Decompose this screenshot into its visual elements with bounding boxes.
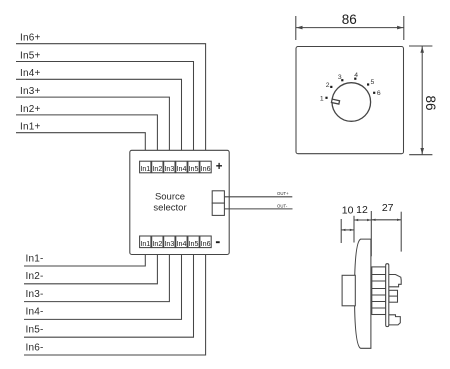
wire In2+ bbox=[16, 104, 157, 161]
svg-text:In1-: In1- bbox=[26, 253, 44, 264]
svg-text:10: 10 bbox=[342, 205, 354, 217]
terminal in1 bottom bbox=[140, 236, 151, 248]
svg-text:In6-: In6- bbox=[26, 342, 44, 353]
output terminal OUT+ block bbox=[212, 191, 224, 203]
wire In4- bbox=[24, 248, 182, 320]
wire In3+ bbox=[16, 86, 169, 161]
svg-text:In3: In3 bbox=[164, 239, 174, 248]
output terminal OUT- block bbox=[212, 203, 224, 215]
svg-text:In5+: In5+ bbox=[20, 50, 41, 61]
terminal in1 top bbox=[140, 161, 151, 173]
side view middle terminal blocks bbox=[389, 290, 398, 302]
svg-text:2: 2 bbox=[326, 82, 330, 89]
wire In1+ bbox=[16, 122, 145, 162]
terminal in4 top bbox=[176, 161, 187, 173]
terminal in3 bottom bbox=[164, 236, 175, 248]
svg-text:selector: selector bbox=[153, 202, 186, 213]
terminal in5 bottom bbox=[188, 236, 199, 248]
terminal in4 bottom bbox=[176, 236, 187, 248]
svg-text:In2-: In2- bbox=[26, 271, 44, 282]
dimension 10 bbox=[341, 205, 354, 243]
wire In5+ bbox=[16, 50, 194, 161]
svg-text:In6: In6 bbox=[201, 239, 211, 248]
svg-text:OUT-: OUT- bbox=[277, 204, 288, 209]
svg-text:+: + bbox=[216, 161, 223, 173]
wire OUT+ bbox=[224, 191, 292, 197]
terminal in6 bottom bbox=[200, 236, 211, 248]
source selector box U1 bbox=[130, 150, 229, 254]
terminal in3 top bbox=[164, 161, 175, 173]
wire In6+ bbox=[16, 33, 206, 162]
svg-text:Source: Source bbox=[155, 191, 185, 202]
svg-text:In3+: In3+ bbox=[20, 86, 41, 97]
wire In6- bbox=[24, 248, 206, 355]
side view bottom connector tab bbox=[388, 315, 400, 325]
dimension 27 bbox=[371, 202, 401, 251]
wire In3- bbox=[24, 248, 169, 302]
position dot 4 bbox=[354, 78, 356, 80]
position dot 5 bbox=[367, 83, 369, 85]
wire In5- bbox=[24, 248, 194, 338]
terminal in2 top bbox=[152, 161, 163, 173]
height dimension 86 bbox=[409, 46, 438, 155]
svg-text:In4+: In4+ bbox=[20, 68, 41, 79]
svg-text:6: 6 bbox=[377, 90, 381, 97]
svg-text:In3: In3 bbox=[164, 164, 174, 173]
svg-text:86: 86 bbox=[423, 95, 438, 110]
position dot 2 bbox=[330, 86, 332, 88]
svg-text:In4: In4 bbox=[177, 164, 187, 173]
position dot 3 bbox=[341, 79, 343, 81]
svg-text:4: 4 bbox=[354, 72, 358, 79]
svg-text:OUT+: OUT+ bbox=[277, 191, 289, 196]
svg-text:In3-: In3- bbox=[26, 289, 44, 300]
svg-text:In5: In5 bbox=[189, 164, 199, 173]
svg-text:12: 12 bbox=[356, 204, 368, 216]
side view switch body bbox=[372, 267, 386, 315]
svg-text:In4: In4 bbox=[177, 239, 187, 248]
svg-text:In2: In2 bbox=[152, 164, 162, 173]
terminal in6 top bbox=[200, 161, 211, 173]
svg-text:In1+: In1+ bbox=[20, 122, 41, 133]
side view top connector tab bbox=[388, 275, 401, 287]
terminal in2 bottom bbox=[152, 236, 163, 248]
width dimension 86 bbox=[296, 12, 404, 40]
dimension 12 bbox=[354, 204, 371, 256]
side view faceplate bbox=[355, 239, 371, 348]
position dot 1 bbox=[325, 97, 327, 99]
svg-text:In2+: In2+ bbox=[20, 104, 41, 115]
svg-text:In5-: In5- bbox=[26, 325, 44, 336]
wire In2- bbox=[24, 248, 157, 284]
svg-text:5: 5 bbox=[371, 79, 375, 86]
wire OUT- bbox=[224, 204, 292, 209]
wire In4+ bbox=[16, 68, 182, 161]
minus polarity sign bbox=[216, 241, 220, 243]
svg-text:27: 27 bbox=[382, 202, 394, 214]
label Source selector bbox=[153, 191, 186, 213]
svg-text:3: 3 bbox=[338, 74, 342, 81]
svg-text:In6+: In6+ bbox=[20, 33, 41, 44]
svg-text:In1: In1 bbox=[140, 239, 150, 248]
terminal in5 top bbox=[188, 161, 199, 173]
svg-text:In5: In5 bbox=[189, 239, 199, 248]
svg-text:In6: In6 bbox=[201, 164, 211, 173]
svg-text:In4-: In4- bbox=[26, 307, 44, 318]
side view mounting bar bbox=[386, 264, 389, 327]
svg-text:1: 1 bbox=[320, 95, 324, 102]
front panel square bbox=[296, 47, 404, 154]
knob pointer bbox=[331, 99, 339, 104]
position dot 6 bbox=[373, 92, 375, 94]
svg-text:In1: In1 bbox=[140, 164, 150, 173]
wire In1- bbox=[24, 248, 145, 266]
svg-text:In2: In2 bbox=[152, 239, 162, 248]
svg-text:86: 86 bbox=[342, 12, 357, 27]
rotary knob bbox=[332, 83, 371, 122]
side view knob shaft bbox=[342, 275, 355, 306]
